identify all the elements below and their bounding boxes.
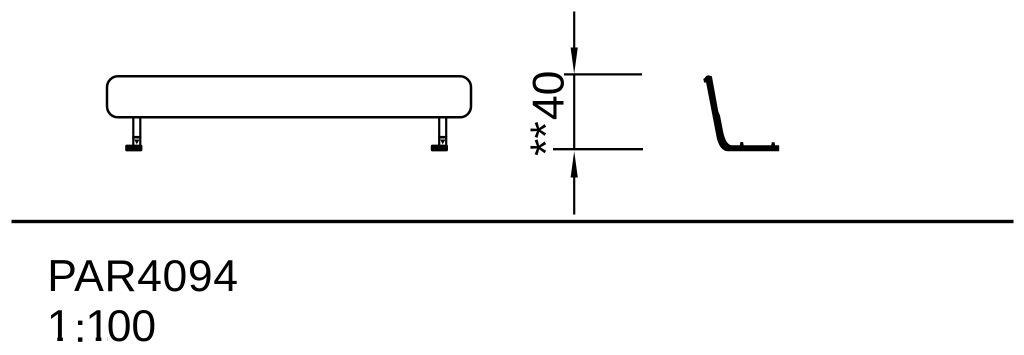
left leg (132, 118, 141, 146)
bench seat front view (107, 76, 471, 117)
dimension upper leader line (573, 12, 575, 53)
left foot plate (125, 145, 142, 152)
dimension lower leader line (573, 173, 575, 215)
right foot plate (431, 145, 448, 152)
side profile top tab (703, 78, 706, 83)
dimension span line (573, 74, 575, 149)
ground line (12, 220, 1014, 223)
dimension upper arrowhead (down) (571, 48, 578, 75)
side profile seat section (704, 75, 779, 151)
label PAR4094 (47, 252, 238, 301)
svg-text:00: 00 (107, 302, 157, 351)
dimension upper extension tick (564, 73, 642, 75)
svg-text:40: 40 (525, 71, 574, 121)
dimension lower arrowhead (up) (571, 151, 578, 178)
dimension label **40 (522, 71, 574, 156)
right leg (438, 118, 447, 146)
svg-text:1: 1 (47, 302, 72, 351)
svg-text:PAR4094: PAR4094 (47, 252, 238, 301)
dimension lower extension tick (553, 148, 643, 150)
svg-text:**: ** (522, 121, 571, 156)
label 1:100 (47, 302, 156, 351)
